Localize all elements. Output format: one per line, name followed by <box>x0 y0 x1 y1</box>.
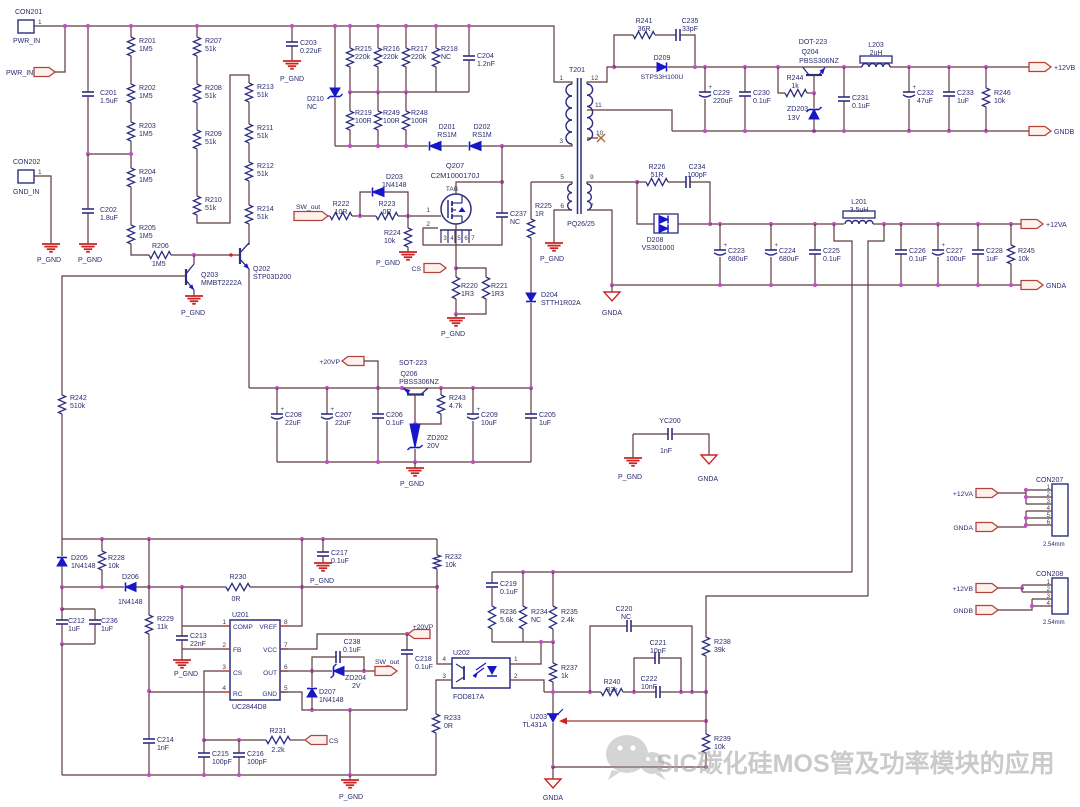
watermark logo <box>606 735 666 780</box>
svg-text:51k: 51k <box>257 92 269 99</box>
svg-text:1: 1 <box>38 169 42 176</box>
label GNDB con <box>953 608 973 615</box>
svg-text:8: 8 <box>284 619 288 626</box>
node gnda-R245 <box>1009 283 1013 287</box>
wire C207 top <box>326 388 328 414</box>
wire C230 bottom <box>744 96 746 131</box>
node 20vp-C206 <box>376 386 380 390</box>
label R249 <box>383 110 400 125</box>
node C201-C202 <box>86 152 90 156</box>
wire C226 top <box>900 224 902 250</box>
node R232 bot <box>435 585 439 589</box>
resistor R222 <box>330 212 352 219</box>
wire Q202 emitter <box>248 269 250 388</box>
resistor R246 <box>982 88 989 107</box>
port +12VB <box>0 0 1 1</box>
wire vcc rail <box>62 538 437 540</box>
svg-text:51k: 51k <box>205 139 217 146</box>
svg-text:100R: 100R <box>383 118 400 125</box>
port +20VP main shape <box>342 357 364 366</box>
ground P_GND sense <box>441 318 465 338</box>
svg-text:R241: R241 <box>636 18 653 25</box>
wire R248 top <box>405 92 407 111</box>
port +20VP vcc <box>0 0 1 1</box>
svg-text:STPS3H100U: STPS3H100U <box>641 74 684 81</box>
svg-text:100pF: 100pF <box>247 759 267 766</box>
svg-text:1.8uF: 1.8uF <box>100 215 118 222</box>
svg-text:R211: R211 <box>257 125 273 132</box>
svg-text:D207: D207 <box>319 689 336 696</box>
resistor R231 <box>266 736 290 743</box>
svg-text:C237: C237 <box>510 211 527 218</box>
node RC tap <box>147 689 151 693</box>
mosfet Q207 source pins <box>440 230 475 243</box>
svg-text:1uF: 1uF <box>101 626 113 633</box>
svg-text:3.5uH: 3.5uH <box>850 207 869 214</box>
resistor R236 <box>488 606 495 629</box>
svg-text:R215: R215 <box>355 46 372 53</box>
svg-text:C215: C215 <box>212 751 229 758</box>
wire pin1 stub <box>571 82 572 84</box>
svg-text:R228: R228 <box>108 555 125 562</box>
node gnd-drop <box>348 708 352 712</box>
svg-text:0.1uF: 0.1uF <box>415 664 433 671</box>
svg-text:1: 1 <box>222 619 226 626</box>
label TAB <box>446 186 458 193</box>
label R220 <box>461 283 478 298</box>
resistor R238 <box>702 637 709 656</box>
wire D208 cathode <box>678 223 710 225</box>
node vcc-vref <box>300 537 304 541</box>
wire R226-C234 <box>668 181 686 183</box>
wire OUT pin <box>280 670 332 672</box>
port SW_out drv shape <box>375 667 397 676</box>
node bus-PWRIN <box>63 24 67 28</box>
node vcc-C217 <box>321 537 325 541</box>
svg-text:GNDA: GNDA <box>698 476 719 483</box>
con208 pin stubs a <box>1022 585 1052 592</box>
label C232 <box>917 90 934 105</box>
svg-text:C222: C222 <box>641 676 658 683</box>
svg-text:6: 6 <box>560 203 564 210</box>
node drain mid <box>500 180 504 184</box>
svg-text:1M5: 1M5 <box>139 93 153 100</box>
svg-text:STP03D200: STP03D200 <box>253 274 291 281</box>
wire gnd drop <box>349 710 351 775</box>
svg-text:GNDA: GNDA <box>602 310 623 317</box>
label C205 <box>539 412 556 427</box>
svg-text:33pF: 33pF <box>682 26 698 33</box>
wire ZD203 bottom <box>813 119 815 131</box>
wire R229 mid <box>148 539 150 615</box>
svg-text:R237: R237 <box>561 665 578 672</box>
label GNDA con <box>953 525 973 532</box>
wire R215 bottom <box>349 67 351 92</box>
wire left rail lower <box>61 587 63 609</box>
svg-text:CS: CS <box>233 670 243 677</box>
label +12VA <box>1046 222 1067 229</box>
transistor Q206 <box>403 388 428 395</box>
svg-text:36R: 36R <box>638 26 651 33</box>
resistor R221 <box>482 277 489 299</box>
svg-text:0.1uF: 0.1uF <box>909 256 927 263</box>
wire R209-R210 <box>196 149 198 196</box>
label pin 6 <box>560 203 564 210</box>
svg-text:C2M1000170J: C2M1000170J <box>431 171 480 180</box>
label R241 <box>636 18 653 33</box>
svg-text:7: 7 <box>471 236 475 242</box>
inductor L201 <box>843 211 875 224</box>
node 12vb-C230 <box>743 65 747 69</box>
svg-text:9: 9 <box>590 174 594 181</box>
svg-text:1M5: 1M5 <box>152 261 166 268</box>
wire C218 bottom <box>406 654 408 710</box>
port SW_out drv <box>0 0 1 1</box>
svg-text:R210: R210 <box>205 197 222 204</box>
wire TL431 anode <box>552 723 554 767</box>
resistor R234 <box>519 606 526 629</box>
svg-text:STTH1R02A: STTH1R02A <box>541 300 581 307</box>
node gndb-C232 <box>907 129 911 133</box>
capacitor C222 <box>656 686 660 698</box>
label D210 <box>307 96 324 111</box>
wire L203 out <box>890 66 1029 68</box>
diode D201 <box>430 142 442 151</box>
wire ZD203 top <box>813 93 815 108</box>
label C207 <box>335 412 352 427</box>
svg-text:0.1uF: 0.1uF <box>343 647 361 654</box>
svg-text:D202: D202 <box>474 124 491 131</box>
wire R246 bottom <box>985 107 987 131</box>
wire C223 top <box>719 224 721 250</box>
label R219 <box>355 110 372 125</box>
wire R235 bottom <box>552 629 554 642</box>
diode D209 <box>657 63 667 72</box>
svg-text:C216: C216 <box>247 751 264 758</box>
wire C209 top <box>472 388 474 414</box>
ground P_GND Q203 <box>181 296 205 317</box>
svg-text:1M5: 1M5 <box>139 177 153 184</box>
IC U201 box <box>222 612 288 711</box>
svg-text:R205: R205 <box>139 225 156 232</box>
wire top bus <box>34 26 571 82</box>
port GNDB shape <box>1029 127 1051 136</box>
svg-text:5: 5 <box>457 236 461 242</box>
node C212 bot <box>60 642 64 646</box>
node 12va-C226 <box>899 222 903 226</box>
svg-text:0R: 0R <box>444 723 453 730</box>
svg-text:U203: U203 <box>530 714 547 721</box>
wire fb tap A <box>834 224 852 572</box>
svg-text:51k: 51k <box>205 46 217 53</box>
node 12va-C224 <box>769 222 773 226</box>
con207 pin stubs b <box>1026 511 1052 525</box>
wire R219 top <box>349 92 351 111</box>
wire R232-pin4 <box>437 569 452 664</box>
svg-text:L203: L203 <box>868 42 884 49</box>
label C202 <box>100 207 118 222</box>
ground P_GND R224 <box>376 252 417 267</box>
svg-text:1uF: 1uF <box>539 420 551 427</box>
svg-text:GNDB: GNDB <box>1054 129 1075 136</box>
node vref riser <box>300 585 304 589</box>
label R231 <box>270 728 287 754</box>
node 20vp-R243 <box>439 386 443 390</box>
node pg-drop <box>348 773 352 777</box>
svg-text:Q206: Q206 <box>400 371 417 378</box>
svg-text:ZD203: ZD203 <box>787 106 808 113</box>
capacitor C203 <box>286 42 298 46</box>
wire R201-R202 <box>130 56 132 84</box>
wire R204-R205 <box>130 187 132 225</box>
svg-text:R218: R218 <box>441 46 458 53</box>
node bus-C201 <box>86 24 90 28</box>
ground P_GND C213 <box>173 660 198 678</box>
svg-text:R217: R217 <box>411 46 428 53</box>
svg-text:R229: R229 <box>157 616 174 623</box>
label C223 <box>728 248 748 263</box>
svg-text:P_GND: P_GND <box>339 794 363 801</box>
svg-text:0.1uF: 0.1uF <box>852 103 870 110</box>
svg-text:+: + <box>709 85 713 91</box>
resistor R233 <box>432 714 439 733</box>
svg-text:GND_IN: GND_IN <box>13 189 39 196</box>
wire R201 chain <box>130 26 132 37</box>
svg-text:+12VB: +12VB <box>1054 65 1076 72</box>
wire R215 top <box>349 26 351 48</box>
svg-text:680uF: 680uF <box>779 256 799 263</box>
svg-text:SW_out: SW_out <box>296 204 320 211</box>
resistor R205 <box>127 225 134 244</box>
wire R240-C222 <box>623 691 656 693</box>
node mid-R248 <box>404 90 408 94</box>
wire Q207 source <box>455 224 457 268</box>
svg-text:RC: RC <box>233 691 243 698</box>
wire C220 loop right <box>631 626 692 692</box>
node gnda-C223 <box>718 283 722 287</box>
svg-text:SW_out: SW_out <box>375 659 399 666</box>
resistor R239 <box>702 734 709 753</box>
svg-text:L201: L201 <box>851 199 867 206</box>
wire R242 to vcc rail <box>61 414 63 539</box>
svg-text:D201: D201 <box>439 124 456 131</box>
label pin 1 <box>559 75 563 82</box>
node gndb-C233 <box>947 129 951 133</box>
wire C221 loop <box>634 658 655 692</box>
svg-text:2uH: 2uH <box>870 50 883 57</box>
svg-text:1R3: 1R3 <box>491 291 504 298</box>
ground P_GND C203 <box>280 61 304 83</box>
svg-text:4: 4 <box>442 656 446 663</box>
svg-text:OUT: OUT <box>263 670 277 677</box>
svg-text:C224: C224 <box>779 248 796 255</box>
connector CON201 <box>13 9 42 45</box>
svg-text:NC: NC <box>441 54 451 61</box>
resistor R242 <box>58 395 65 414</box>
svg-text:+12VA: +12VA <box>1046 222 1067 229</box>
node comp-C220b <box>690 690 694 694</box>
wire PGND bottom rail <box>62 774 436 776</box>
svg-text:R246: R246 <box>994 90 1011 97</box>
svg-text:1N4148: 1N4148 <box>118 599 143 606</box>
svg-text:33k: 33k <box>606 687 618 694</box>
ground GNDA secondary <box>602 292 623 317</box>
wire C205 bottom <box>530 418 532 462</box>
node 12va-in <box>708 222 712 226</box>
svg-text:R225: R225 <box>535 203 552 210</box>
svg-text:0.1uF: 0.1uF <box>823 256 841 263</box>
label C212 <box>68 618 85 633</box>
node bus-R207 <box>195 24 199 28</box>
svg-text:R214: R214 <box>257 206 274 213</box>
svg-text:10k: 10k <box>1018 256 1030 263</box>
svg-text:0.22uF: 0.22uF <box>300 48 322 55</box>
node bus-R218 <box>434 24 438 28</box>
node fb-R235 <box>551 570 555 574</box>
resistor R226 <box>646 178 668 185</box>
node gnda-C228 <box>976 283 980 287</box>
svg-text:C204: C204 <box>477 53 494 60</box>
svg-text:10k: 10k <box>994 98 1006 105</box>
label C201 <box>100 90 118 105</box>
label C203 <box>300 40 322 55</box>
svg-text:R204: R204 <box>139 169 156 176</box>
wire R233 bottom <box>435 733 437 775</box>
capacitor C223 <box>714 243 728 255</box>
wire R206-Q203base <box>171 254 240 256</box>
svg-text:22uF: 22uF <box>285 420 301 427</box>
wire D204 bottom <box>530 303 532 388</box>
wire Q207 drain <box>456 182 502 194</box>
svg-text:VREF: VREF <box>259 624 277 631</box>
svg-text:C219: C219 <box>500 581 517 588</box>
node bus-R217 <box>404 24 408 28</box>
capacitor C219 <box>486 583 498 587</box>
ground P_GND bottom <box>339 780 363 801</box>
wire C234 right <box>690 182 710 224</box>
svg-text:R239: R239 <box>714 736 731 743</box>
label R202 <box>139 85 156 100</box>
capacitor C227 <box>932 243 946 255</box>
label R239 <box>714 736 731 751</box>
wire D206-R230 <box>136 586 226 588</box>
node Q206b-ZD202 <box>413 422 417 426</box>
port CS sense <box>0 0 1 1</box>
svg-text:+: + <box>942 243 946 249</box>
wire con207 p123 <box>1025 490 1027 504</box>
wire D203 loop <box>360 192 371 216</box>
wire C222 right <box>660 691 706 693</box>
wire 20vp gnd rail <box>277 461 531 463</box>
node gnda2-R239 <box>704 765 708 769</box>
svg-text:C234: C234 <box>689 164 706 171</box>
label pin 10 <box>596 130 604 137</box>
label Q207 <box>431 161 480 180</box>
wire Q206 base <box>414 394 416 424</box>
svg-text:12: 12 <box>591 75 599 82</box>
node vref-C213 <box>180 585 184 589</box>
svg-text:+12VA: +12VA <box>953 491 974 498</box>
wire R228 bottom <box>101 570 103 587</box>
ground P_GND pin6 <box>540 243 564 263</box>
wire C209 bottom <box>472 421 474 462</box>
resistor R248 <box>402 111 409 130</box>
svg-text:2: 2 <box>426 221 430 228</box>
wire C221 loop right <box>659 658 681 692</box>
label C214 <box>157 737 174 752</box>
node con208-12 <box>1020 586 1024 590</box>
wire C207 bottom <box>326 421 328 462</box>
node bus-C204 <box>467 24 471 28</box>
svg-text:R232: R232 <box>445 554 462 561</box>
wire C227 top <box>937 224 939 250</box>
label R210 <box>205 197 222 212</box>
wire 20vp port <box>364 361 378 388</box>
node gnda-sym <box>610 283 614 287</box>
svg-text:Q207: Q207 <box>446 161 464 170</box>
node 20vpg-ZD202 <box>413 460 417 464</box>
svg-text:NC: NC <box>307 104 317 111</box>
wire C237 bottom <box>423 217 502 245</box>
wire R208-R209 <box>196 103 198 130</box>
node vref-D205 <box>60 585 64 589</box>
node pg-C215 <box>202 773 206 777</box>
svg-text:R221: R221 <box>491 283 508 290</box>
svg-text:R236: R236 <box>500 609 517 616</box>
svg-text:PBSS306NZ: PBSS306NZ <box>399 379 439 386</box>
node 20vp-C209 <box>471 386 475 390</box>
svg-text:Q203: Q203 <box>201 272 218 279</box>
transformer T201 lower-left winding <box>568 184 572 210</box>
svg-text:5: 5 <box>560 174 564 181</box>
ground P_GND C202 <box>78 244 102 264</box>
svg-text:R220: R220 <box>461 283 478 290</box>
label R232 <box>445 554 462 569</box>
svg-text:1N4148: 1N4148 <box>382 182 407 189</box>
label R206 <box>152 243 169 268</box>
resistor R201 <box>127 37 134 56</box>
node Q204 base <box>812 91 816 95</box>
svg-text:+: + <box>477 407 481 413</box>
wire R228 top <box>101 539 103 551</box>
label C237 <box>510 211 527 226</box>
svg-text:ZD202: ZD202 <box>427 435 448 442</box>
label C227 <box>946 248 966 263</box>
node pg-C216 <box>237 773 241 777</box>
transformer T201 aux winding <box>587 84 593 140</box>
node gndb-R246 <box>984 129 988 133</box>
svg-text:U202: U202 <box>453 650 470 657</box>
svg-text:R219: R219 <box>355 110 372 117</box>
port GNDB con <box>0 0 1 1</box>
svg-text:R203: R203 <box>139 123 156 130</box>
svg-text:VCC: VCC <box>263 647 277 654</box>
wire R218 top <box>435 26 437 48</box>
ground GNDA fb <box>543 779 564 802</box>
wire VCC pin <box>280 634 407 649</box>
transistor Q203 <box>186 264 194 290</box>
capacitor C212 <box>56 620 68 624</box>
svg-text:PQ26/25: PQ26/25 <box>567 221 595 228</box>
wire R231-CS <box>290 739 305 741</box>
svg-text:2.2k: 2.2k <box>271 747 285 754</box>
label R228 <box>108 555 125 570</box>
svg-text:2: 2 <box>514 673 518 680</box>
wire D209 anode <box>614 66 657 68</box>
svg-text:R235: R235 <box>561 609 578 616</box>
resistor R216 <box>374 48 381 67</box>
wire C231 top <box>843 67 845 97</box>
